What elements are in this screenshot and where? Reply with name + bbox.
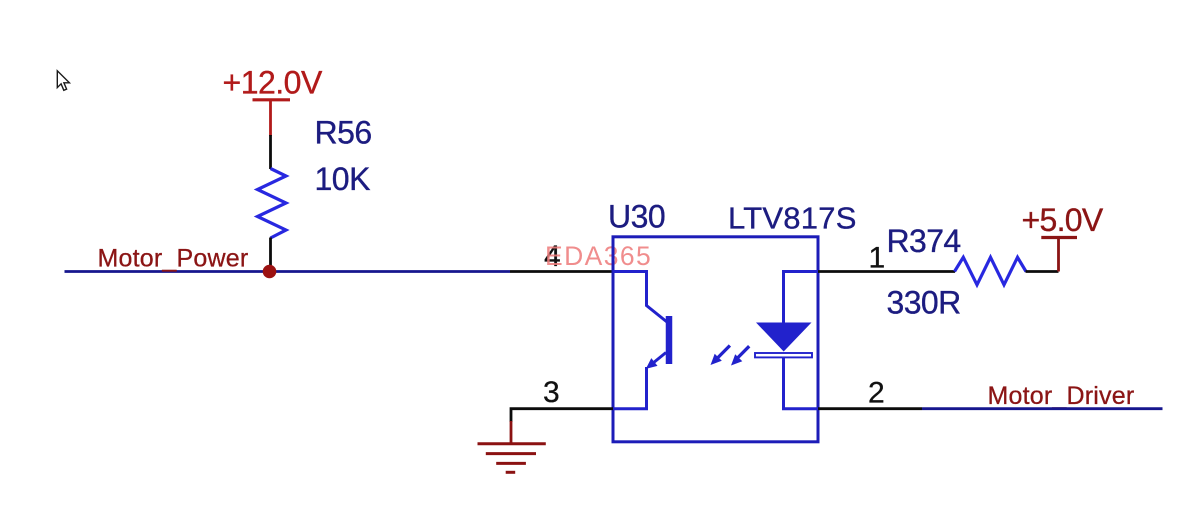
LED cathode wire to pin 2 [784, 358, 819, 409]
wire Motor_Power net (navy) [65, 270, 511, 273]
ground bar 4 [506, 471, 516, 474]
wire pin 4 stub (black) [510, 270, 613, 273]
power symbol +5.0V stem [1057, 238, 1060, 272]
ground bar 1 [478, 442, 546, 445]
phototransistor emitter arrowhead [646, 358, 658, 369]
svg-text:10K: 10K [315, 161, 371, 197]
svg-text:+12.0V: +12.0V [223, 65, 323, 101]
svg-text:LTV817S: LTV817S [728, 201, 857, 236]
wire Motor_Driver net (navy) [922, 407, 1163, 410]
power symbol +12.0V stem [269, 100, 272, 136]
power symbol +5.0V bar [1041, 236, 1077, 239]
ground bar 2 [486, 452, 536, 455]
svg-text:330R: 330R [887, 285, 961, 321]
light emission arrow 2 shaft [738, 346, 750, 358]
mouse cursor [57, 71, 69, 91]
svg-text:1: 1 [869, 242, 886, 275]
light emission arrow 2 head [731, 354, 742, 365]
light emission arrow 1 head [711, 354, 722, 365]
phototransistor emitter lead [650, 353, 666, 366]
wire pin 2 stub (black) [818, 407, 922, 410]
svg-text:2: 2 [868, 376, 885, 409]
ground bar 3 [496, 462, 526, 465]
svg-text:U30: U30 [608, 199, 665, 235]
ground stem [510, 421, 513, 443]
svg-text:Motor_Driver: Motor_Driver [988, 382, 1135, 410]
LED cathode bar [755, 353, 812, 357]
svg-text:R374: R374 [887, 223, 961, 259]
LED anode lead from pin 1 [784, 272, 819, 324]
phototransistor emitter wire to pin 3 [613, 367, 647, 409]
svg-text:3: 3 [543, 376, 560, 409]
LED triangle [756, 323, 812, 352]
wire resistor R374 to +5.0V [1026, 270, 1059, 273]
wire pin 3 stub [511, 409, 613, 422]
junction dot [263, 265, 277, 279]
light emission arrow 1 shaft [717, 346, 730, 359]
wire from resistor R56 to junction [269, 238, 272, 272]
wire from +12.0V to resistor R56 [269, 135, 272, 169]
svg-text:+5.0V: +5.0V [1022, 202, 1104, 238]
svg-text:Motor_Power: Motor_Power [98, 245, 249, 273]
phototransistor collector lead [613, 272, 667, 323]
resistor R374 zigzag [955, 257, 1027, 285]
wire pin 1 to resistor R374 [818, 270, 955, 273]
resistor R56 zigzag [258, 169, 287, 239]
svg-text:EDA365: EDA365 [545, 241, 652, 271]
power symbol +12.0V bar [253, 98, 291, 101]
op-to-coupler U30 box [613, 237, 818, 442]
svg-text:R56: R56 [315, 115, 372, 151]
phototransistor base bar [666, 316, 673, 364]
